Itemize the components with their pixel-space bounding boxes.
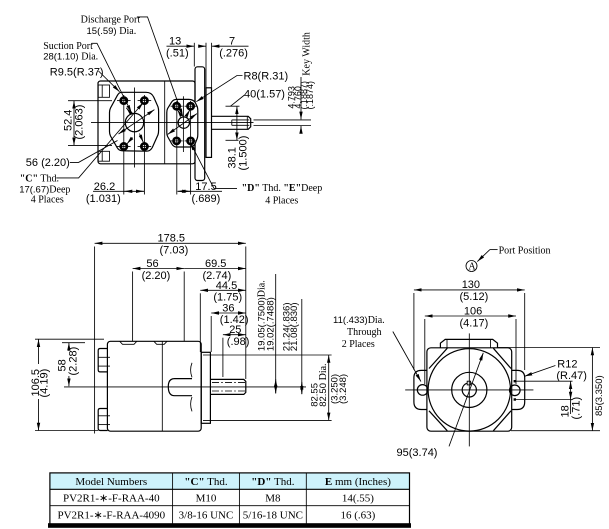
svg-text:13: 13	[169, 36, 181, 48]
vertical centerline	[468, 333, 470, 446]
svg-text:E mm (Inches): E mm (Inches)	[325, 476, 391, 488]
leader D thread	[190, 143, 237, 189]
body split line	[161, 341, 163, 431]
discharge port circle	[178, 117, 189, 128]
datum A circle	[466, 261, 477, 272]
svg-text:82.50 Dia.: 82.50 Dia.	[318, 363, 329, 406]
shaft key lines	[232, 119, 250, 121]
header separator	[50, 488, 410, 490]
through arrows suction face	[119, 122, 137, 134]
clipped right dimension	[497, 347, 600, 349]
left ear hole	[417, 385, 428, 396]
svg-text:Model Numbers: Model Numbers	[75, 476, 147, 488]
spigot circle 40	[452, 372, 487, 407]
svg-text:15(.59) Dia.: 15(.59) Dia.	[87, 26, 137, 37]
bolt hole TR	[138, 98, 152, 104]
svg-text:M8: M8	[265, 493, 281, 505]
svg-text:16 (.63): 16 (.63)	[340, 510, 375, 522]
left notch top	[98, 85, 109, 97]
svg-text:M10: M10	[196, 493, 217, 505]
svg-text:Port Position: Port Position	[499, 245, 551, 256]
suction boss side	[98, 349, 107, 372]
discharge face vertical centerline	[182, 96, 184, 152]
svg-text:"D" Thd. "E"Deep: "D" Thd. "E"Deep	[242, 183, 323, 194]
svg-text:4 Places: 4 Places	[31, 194, 64, 205]
svg-text:19.02(.7488): 19.02(.7488)	[266, 297, 277, 351]
key width projection lines	[254, 119, 312, 121]
body split line	[164, 81, 166, 164]
top notch 2	[154, 341, 167, 344]
svg-text:R8(R.31): R8(R.31)	[244, 71, 289, 83]
svg-text:14(.55): 14(.55)	[342, 493, 374, 505]
svg-text:PV2R1-∗-F-RAA-4090: PV2R1-∗-F-RAA-4090	[57, 510, 165, 522]
shaft circle	[462, 383, 476, 397]
body outline	[107, 341, 201, 431]
svg-text:R12: R12	[557, 359, 577, 371]
keyway notch	[467, 381, 470, 385]
svg-text:2 Places: 2 Places	[342, 339, 375, 350]
svg-text:56 (2.20): 56 (2.20)	[26, 157, 70, 169]
svg-text:Through: Through	[347, 327, 381, 338]
svg-text:R9.5(R.37): R9.5(R.37)	[50, 67, 104, 79]
svg-text:Discharge Port: Discharge Port	[81, 14, 141, 25]
svg-text:11(.433)Dia.: 11(.433)Dia.	[333, 315, 385, 326]
svg-text:"C" Thd.: "C" Thd.	[184, 476, 227, 488]
svg-text:(2.28): (2.28)	[68, 347, 80, 376]
top notch 1	[120, 341, 137, 344]
svg-text:3/8-16 UNC: 3/8-16 UNC	[179, 510, 234, 522]
svg-text:85(3.350): 85(3.350)	[594, 375, 605, 416]
svg-text:5/16-18 UNC: 5/16-18 UNC	[243, 510, 303, 522]
bolt hole BL	[117, 143, 131, 149]
svg-text:"D" Thd.: "D" Thd.	[251, 476, 294, 488]
corner chamfer BL	[429, 411, 447, 431]
svg-text:PV2R1-∗-F-RAA-40: PV2R1-∗-F-RAA-40	[63, 493, 160, 505]
svg-text:Key Width: Key Width	[302, 32, 313, 76]
hole arrow TL	[126, 108, 132, 115]
lower boss side	[98, 409, 107, 431]
shaft-end extension line	[245, 247, 247, 380]
leader suction port	[92, 43, 132, 112]
horizontal centerline	[91, 122, 254, 124]
corner chamfer BR	[493, 411, 511, 431]
corner chamfer TR	[493, 348, 511, 368]
svg-text:(1.500): (1.500)	[238, 136, 250, 171]
pilot circle 95	[428, 349, 510, 431]
bolt hole D-BL	[171, 138, 183, 144]
column lines	[172, 473, 174, 526]
pilot arcs	[191, 363, 192, 378]
svg-text:(2.063): (2.063)	[74, 105, 86, 140]
discharge bolt columns to 17.5 dim	[176, 101, 178, 195]
svg-text:21.08(.830): 21.08(.830)	[289, 303, 300, 352]
suction port circle	[125, 113, 143, 131]
left notch bottom	[98, 151, 109, 161]
leader discharge port	[137, 17, 183, 116]
dim 52.4	[68, 100, 112, 102]
bottom cut bar	[48, 523, 411, 528]
through arrows discharge face	[168, 124, 183, 135]
svg-text:(.689): (.689)	[192, 193, 221, 205]
discharge flange face	[167, 99, 198, 147]
svg-text:95(3.74): 95(3.74)	[397, 447, 438, 459]
right ear	[512, 370, 525, 409]
left ear	[414, 370, 427, 409]
shaft side	[210, 379, 245, 394]
flange plate	[201, 352, 210, 423]
svg-text:(.51): (.51)	[166, 48, 189, 60]
leader 11 dia	[393, 332, 421, 382]
shaft centerline	[64, 386, 306, 388]
hole arrow BR	[140, 134, 144, 143]
svg-text:Suction Port: Suction Port	[43, 41, 93, 52]
svg-text:(R.47): (R.47)	[556, 370, 587, 382]
bolt hole D-BR	[185, 138, 197, 144]
svg-text:40(1.57): 40(1.57)	[244, 89, 285, 101]
mounting flange plate edge	[206, 88, 212, 158]
svg-text:(5.12): (5.12)	[460, 291, 489, 303]
leader C thread	[56, 103, 143, 178]
svg-text:"C" Thd.: "C" Thd.	[20, 174, 59, 185]
svg-text:(7.03): (7.03)	[160, 245, 189, 257]
bolt hole BR	[138, 143, 152, 149]
right ear hole	[510, 385, 521, 396]
svg-text:4 Places: 4 Places	[265, 196, 298, 207]
pump body block	[98, 81, 195, 164]
leader 40	[231, 95, 245, 106]
svg-text:(.71): (.71)	[571, 397, 583, 420]
leader R12	[525, 366, 556, 377]
svg-text:(3.248): (3.248)	[338, 374, 349, 404]
svg-text:A: A	[468, 262, 476, 273]
leader R9.5	[99, 71, 120, 92]
svg-text:(4.19): (4.19)	[39, 369, 51, 398]
bolt hole TL	[117, 98, 131, 104]
hole arrow BL	[127, 138, 133, 144]
top boss	[440, 339, 497, 347]
dim 40 vertical	[226, 105, 240, 107]
suction face vertical centerline	[134, 88, 136, 168]
bolt columns to 26.2 dim	[123, 95, 125, 195]
seal boss	[168, 379, 192, 396]
discharge hole arrows	[177, 110, 179, 114]
bolt hole D-TL	[171, 103, 183, 109]
svg-text:(1.031): (1.031)	[86, 193, 121, 205]
svg-text:(2.20): (2.20)	[142, 270, 171, 282]
svg-text:(.1874): (.1874)	[305, 81, 315, 110]
svg-text:130: 130	[462, 279, 480, 291]
rear cover block	[195, 67, 205, 181]
svg-text:28(1.10) Dia.: 28(1.10) Dia.	[43, 52, 98, 63]
extension lines 13/7	[193, 43, 195, 67]
suction flange face	[110, 92, 159, 151]
leader 56	[70, 141, 118, 163]
svg-text:(.276): (.276)	[219, 48, 248, 60]
row separator	[50, 505, 410, 507]
svg-text:(4.17): (4.17)	[460, 318, 489, 330]
dim 18	[515, 380, 573, 382]
horizontal centerline	[405, 389, 533, 391]
corner chamfer TL	[429, 348, 447, 368]
svg-text:7: 7	[229, 36, 235, 48]
key hidden lines	[212, 382, 246, 384]
bolt hole D-TR	[185, 103, 197, 109]
leader 95	[449, 353, 483, 447]
shaft	[212, 116, 251, 129]
leader R8	[196, 76, 242, 102]
body outline	[427, 348, 512, 431]
